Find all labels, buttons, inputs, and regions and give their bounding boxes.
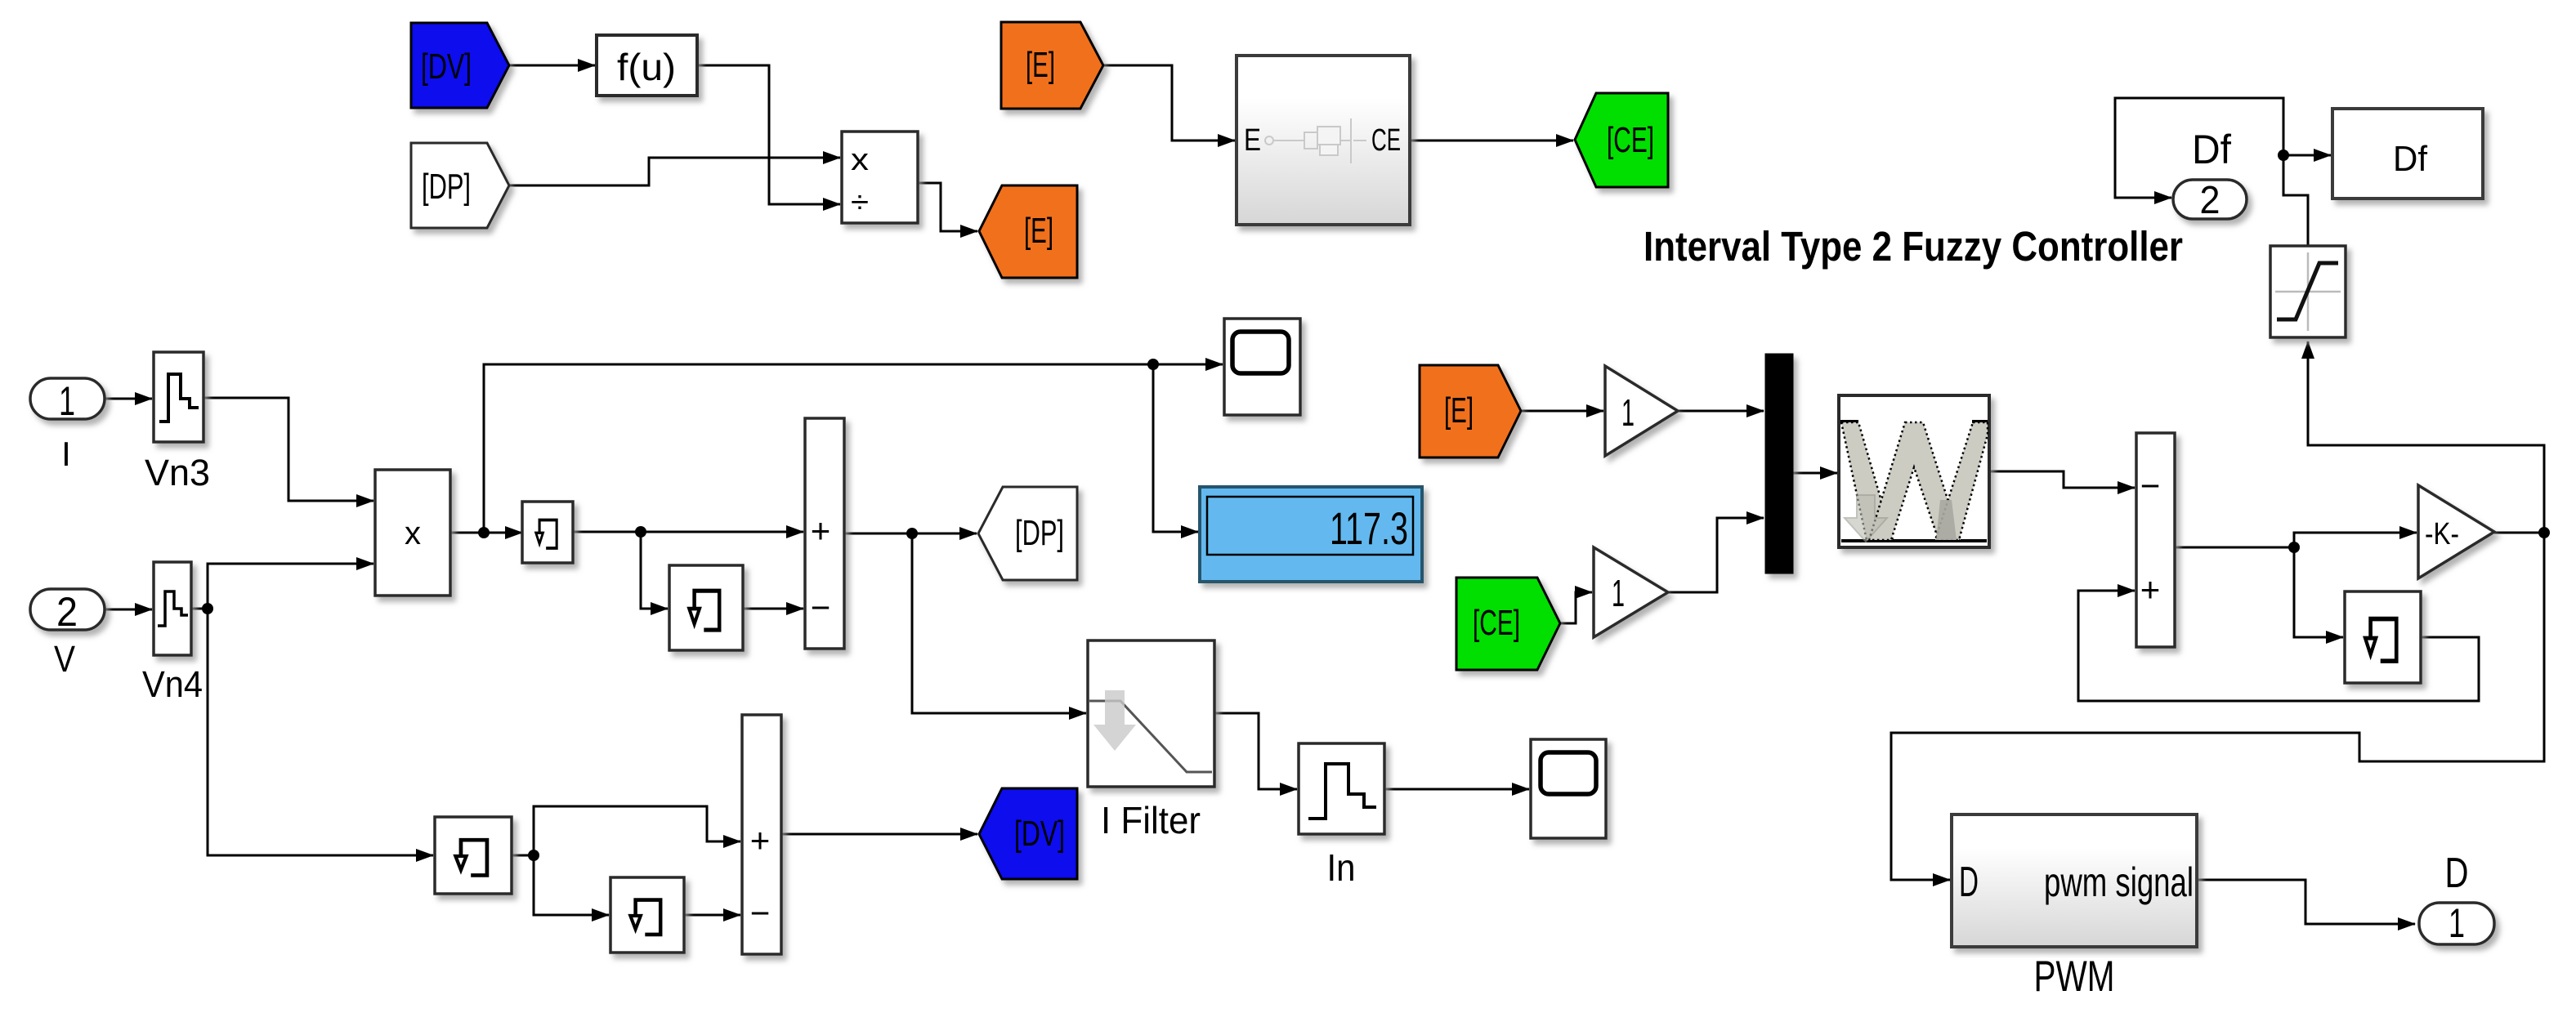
- svg-text:[DV]: [DV]: [1014, 814, 1065, 854]
- block PWM subsystem: [1952, 814, 2197, 947]
- wire DV_from to f(u): [509, 65, 595, 67]
- block display 117.3: [1200, 487, 1422, 582]
- wire junction down to display117: [1153, 364, 1198, 532]
- wire delay5 feedback to sum3 plus: [2078, 591, 2479, 701]
- wire sum4 to DV_goto: [781, 833, 977, 836]
- wire junction down to IFilter: [912, 533, 1086, 713]
- block product2 divide: [842, 132, 918, 223]
- svg-text:PWM: PWM: [2034, 953, 2115, 1001]
- block sum3 subtract add: [2136, 433, 2175, 647]
- svg-text:[E]: [E]: [1444, 390, 1474, 431]
- svg-text:+: +: [811, 511, 831, 550]
- block delay1 unit delay: [522, 502, 573, 563]
- wire junction to Df block: [2283, 154, 2331, 157]
- block Df scope rect: [2332, 109, 2483, 199]
- block fcn f(u): [597, 35, 697, 96]
- label Vn4: [142, 663, 203, 705]
- svg-text:[CE]: [CE]: [1607, 120, 1654, 160]
- wire saturation up to outport2 with junction: [2115, 98, 2308, 246]
- svg-text:I Filter: I Filter: [1101, 799, 1201, 841]
- goto tag DP white: [978, 487, 1077, 580]
- label V: [54, 638, 75, 680]
- wire delay1 to sum2 plus with junction: [573, 526, 803, 538]
- block Vn4 rate transition: [154, 562, 191, 655]
- svg-text:2: 2: [2200, 179, 2220, 222]
- wire junction down to delay5: [2294, 547, 2343, 637]
- svg-text:D: D: [2445, 850, 2469, 897]
- wire Vn3 to product1: [203, 398, 373, 501]
- label In: [1327, 846, 1356, 889]
- wire IFilter to In block: [1214, 713, 1297, 789]
- svg-text:Vn3: Vn3: [145, 452, 210, 493]
- svg-text:CE: CE: [1371, 123, 1401, 158]
- wire delay3 junction up to sum4 plus: [512, 806, 740, 861]
- svg-text:E: E: [1244, 123, 1261, 158]
- svg-text:[E]: [E]: [1026, 45, 1055, 85]
- block product1 x: [375, 470, 450, 596]
- wire product2 to E_goto: [918, 183, 977, 231]
- svg-text:1: 1: [2449, 900, 2465, 946]
- wire Vn4 junction down to delay3: [208, 609, 433, 855]
- block sum2 add subtract: [805, 418, 844, 649]
- svg-text:In: In: [1327, 846, 1356, 889]
- wire DP_from to product2 times input: [509, 158, 840, 185]
- from tag CE green bot: [1456, 578, 1560, 670]
- block In sample hold: [1299, 743, 1384, 834]
- svg-text:pwm signal: pwm signal: [2044, 859, 2194, 905]
- label PWM: [2034, 953, 2115, 1001]
- wire mux to fuzzy: [1793, 472, 1837, 475]
- block delay2 unit delay: [669, 565, 743, 650]
- block delay5 unit delay: [2345, 591, 2421, 683]
- wire junction down to delay2: [641, 532, 668, 609]
- svg-text:f(u): f(u): [617, 46, 676, 88]
- block saturation: [2270, 246, 2346, 337]
- block gain2: [1594, 547, 1668, 637]
- svg-text:+: +: [2140, 570, 2161, 609]
- block Vn3 rate transition: [154, 352, 203, 442]
- svg-text:−: −: [2140, 466, 2161, 505]
- block scope1: [1224, 319, 1300, 415]
- label I Filter: [1101, 799, 1201, 841]
- wire fuzzy to sum3 minus: [1989, 471, 2135, 488]
- wire gain2 to mux: [1668, 518, 1764, 592]
- svg-text:[E]: [E]: [1024, 211, 1053, 251]
- svg-text:−: −: [750, 894, 771, 932]
- wire E_from_mid to gain1: [1521, 410, 1603, 413]
- block scope2: [1531, 739, 1606, 838]
- inport 2: [30, 589, 105, 635]
- svg-text:Interval Type 2 Fuzzy Controll: Interval Type 2 Fuzzy Controller: [1644, 223, 2183, 270]
- label Interval Type 2 Fuzzy Controller: [1644, 223, 2183, 270]
- svg-text:2: 2: [56, 589, 78, 635]
- svg-text:x: x: [851, 143, 869, 177]
- block mux: [1765, 354, 1793, 573]
- from tag E orange mid: [1420, 365, 1521, 457]
- svg-text:Df: Df: [2393, 139, 2428, 179]
- svg-text:V: V: [54, 638, 75, 680]
- svg-text:÷: ÷: [851, 185, 869, 220]
- svg-text:-K-: -K-: [2425, 517, 2459, 551]
- from tag DV blue top: [411, 23, 509, 108]
- wire gain1 to mux: [1678, 410, 1764, 413]
- outport 2: [2173, 179, 2247, 222]
- goto tag E orange: [979, 185, 1077, 278]
- svg-text:1: 1: [1612, 572, 1625, 614]
- svg-text:1: 1: [1621, 391, 1635, 434]
- svg-text:+: +: [750, 821, 771, 859]
- svg-text:1: 1: [59, 378, 75, 424]
- wire inport1 to Vn3: [105, 398, 152, 400]
- inport 1: [30, 378, 105, 424]
- wire E_from_top to subsystem: [1103, 65, 1235, 141]
- wire PWM to outport1: [2197, 880, 2415, 924]
- block delay3 unit delay: [435, 817, 512, 894]
- svg-text:D: D: [1959, 859, 1979, 906]
- svg-text:[DP]: [DP]: [422, 167, 471, 207]
- svg-text:[DP]: [DP]: [1015, 513, 1064, 553]
- block sum4 add subtract: [742, 715, 781, 954]
- wire product1 to delay1 with junction: [450, 527, 522, 538]
- wire delay2 to sum2 minus: [743, 608, 803, 610]
- svg-text:−: −: [811, 588, 831, 627]
- label Vn3: [145, 452, 210, 493]
- svg-text:Vn4: Vn4: [142, 663, 203, 705]
- svg-text:117.3: 117.3: [1330, 502, 1408, 554]
- svg-text:I: I: [61, 435, 71, 473]
- block gain1: [1605, 366, 1678, 456]
- block delay4 unit delay: [610, 877, 684, 953]
- label D: [2445, 850, 2469, 897]
- goto tag DV blue: [979, 788, 1077, 879]
- wire junction down to delay4: [534, 855, 609, 915]
- wire f(u) to product2 divide input: [697, 65, 840, 204]
- block gainK: [2418, 485, 2494, 578]
- svg-text:Df: Df: [2192, 127, 2231, 172]
- wire subsystem to CE_goto: [1410, 140, 1573, 142]
- goto tag CE green: [1575, 93, 1668, 187]
- block fuzzy controller membership: [1839, 395, 1989, 547]
- from tag DP white top: [411, 143, 509, 228]
- label Df signal: [2192, 127, 2231, 172]
- wire junction up to scope1 long run: [484, 359, 1223, 533]
- svg-text:x: x: [405, 515, 421, 551]
- from tag E orange top: [1001, 22, 1103, 109]
- wire CE_from_bot to gain2: [1560, 592, 1592, 623]
- label I: [61, 435, 71, 473]
- wire Vn4 junction up to product1: [191, 564, 373, 614]
- wire delay4 to sum4 minus: [684, 914, 740, 917]
- block IFilter lowpass: [1088, 640, 1214, 787]
- wire sum3 out junction to gainK: [2175, 533, 2417, 553]
- wire In block to scope2: [1384, 788, 1529, 791]
- wire gainK out junction up to saturation: [2308, 341, 2550, 538]
- svg-text:[CE]: [CE]: [1473, 603, 1520, 643]
- wire gainK junction down to PWM: [1891, 533, 2544, 880]
- wire inport2 to Vn4: [105, 609, 152, 611]
- wire sum2 to DP_goto with junction: [844, 528, 977, 539]
- outport 1: [2419, 900, 2494, 946]
- subsystem E to CE: [1237, 56, 1410, 225]
- svg-text:[DV]: [DV]: [421, 47, 472, 87]
